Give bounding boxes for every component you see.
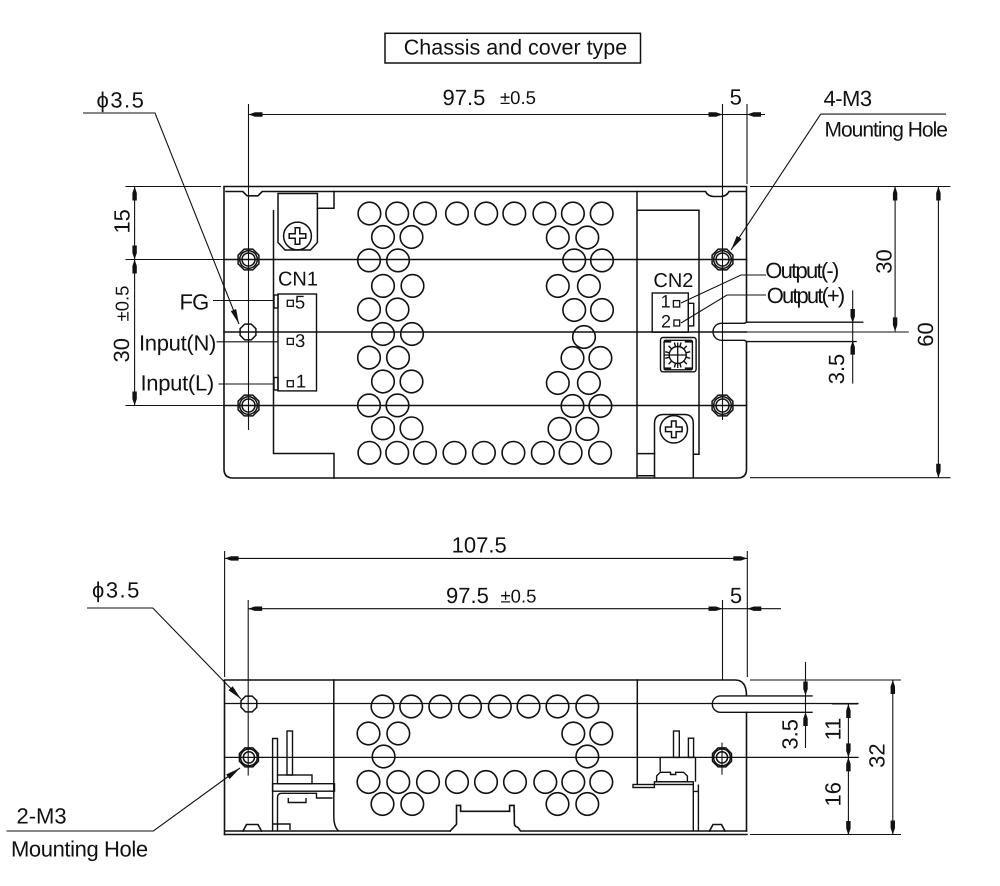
svg-text:ϕ3.5: ϕ3.5	[97, 87, 146, 112]
potentiometer VR1 inner	[664, 340, 692, 370]
svg-text:Mounting Hole: Mounting Hole	[11, 837, 148, 862]
arrow 32 bottom	[891, 821, 895, 835]
dimension line 32	[892, 680, 894, 835]
CN2 side view latch	[657, 772, 688, 782]
arrow 97.5 right / 5 left	[709, 112, 723, 116]
vent holes top view right block	[547, 226, 570, 249]
vent holes top view top row	[358, 202, 381, 225]
svg-text:2-M3: 2-M3	[17, 804, 67, 829]
dimension line 30 right	[894, 187, 896, 332]
svg-text:5: 5	[730, 583, 742, 608]
CN2 side view pin short	[688, 738, 693, 757]
svg-text:16: 16	[820, 782, 845, 806]
extension 15/30 left bottom	[126, 405, 225, 407]
cover edge right top view	[637, 192, 699, 478]
arrow 107.5 left	[225, 556, 239, 560]
svg-text:1: 1	[661, 292, 671, 312]
arrow 11 top	[846, 704, 850, 718]
extension line left hole column	[248, 104, 250, 430]
arrow 30 right bottom	[893, 317, 897, 331]
extension tongue center bottom view	[832, 703, 858, 705]
arrow 3.5 bottom view top	[803, 682, 807, 696]
svg-text:97.5: 97.5	[443, 85, 486, 110]
extension line bottom view right edge	[746, 551, 748, 677]
svg-text:5: 5	[730, 85, 742, 110]
dimension line 3.5 right	[852, 290, 854, 383]
potentiometer corner pads	[664, 340, 692, 370]
extension 15/30 left mid	[126, 259, 225, 261]
chassis seam line lower	[224, 405, 747, 407]
arrow 5 right outside	[747, 112, 761, 116]
arrow 97.5 left	[249, 112, 263, 116]
leader Output(-)	[681, 275, 766, 303]
dimension line 16	[847, 757, 849, 835]
svg-text:3.5: 3.5	[778, 719, 803, 750]
svg-text:CN1: CN1	[278, 269, 318, 291]
CN1 side view block	[278, 775, 313, 784]
svg-text:5: 5	[295, 291, 305, 312]
screw bracket input side	[278, 194, 317, 251]
leader FG	[213, 300, 274, 302]
CN1 side view plate	[273, 784, 335, 792]
svg-text:97.5: 97.5	[446, 583, 489, 608]
vent holes bottom view other rows	[357, 722, 380, 745]
svg-text:32: 32	[865, 743, 890, 767]
chassis seam line upper	[224, 259, 747, 261]
svg-text:11: 11	[820, 718, 845, 741]
CN1 side view body	[278, 793, 333, 831]
extension 30/60 right top	[750, 186, 951, 188]
svg-text:Input(L): Input(L)	[141, 370, 214, 395]
arrow 30 left top	[132, 260, 136, 274]
bottom notch with tabs	[450, 805, 746, 831]
potentiometer VR1 outer	[661, 338, 697, 372]
leader phi3.5 bottom	[87, 608, 241, 699]
bottom tab right	[710, 825, 726, 832]
cover edge line bottom view left	[334, 680, 338, 831]
arrow 16 top	[846, 757, 850, 771]
phi 3.5 hole top view	[240, 324, 256, 340]
mounting hole 2-M3 left	[239, 748, 258, 767]
cover edge line bottom view right	[636, 680, 638, 784]
arrow 97.5 bottom left	[248, 607, 262, 611]
mounting hole 2-M3 right	[713, 748, 732, 767]
connector CN2 body	[652, 293, 688, 332]
extension slot center right	[747, 331, 909, 333]
extension 15/30 left top	[126, 186, 222, 188]
arrow 3.5 top	[851, 309, 855, 323]
CN2 side view bar	[633, 785, 654, 788]
arrow 97.5 bottom right	[709, 607, 723, 611]
dimension line 97.5 top	[249, 114, 766, 116]
svg-text:±0.5: ±0.5	[500, 87, 536, 108]
potentiometer VR1 knurled shaft	[669, 347, 686, 364]
chassis outline bottom view	[225, 680, 747, 835]
CN1 side view pin tall	[287, 731, 293, 775]
CN2 tab right	[688, 303, 693, 326]
extension line right hole column	[722, 104, 724, 420]
arrow 16 bottom	[846, 821, 850, 835]
extension line 32 bottom	[750, 834, 901, 836]
dimension line 107.5	[225, 557, 748, 559]
svg-text:30: 30	[872, 249, 897, 273]
arrow 32 top	[891, 680, 895, 694]
arrowhead 4-M3 leader	[729, 236, 742, 252]
mounting hole bottom-left (4-M3)	[238, 395, 259, 416]
cover edge left top view	[274, 192, 335, 479]
arrow 15 top	[132, 187, 136, 201]
svg-text:2: 2	[661, 312, 671, 332]
CN2 side view leg	[693, 785, 698, 832]
vent holes bottom view top row	[371, 695, 394, 718]
arrowhead 2-M3 leader	[226, 766, 242, 780]
CN1 side view pin short	[273, 739, 290, 832]
chassis bottom outer line	[225, 834, 748, 836]
vent holes top view bottom row	[358, 442, 381, 465]
arrow 15 bottom	[132, 246, 136, 260]
arrow 107.5 right	[733, 556, 747, 560]
CN1 tab pin1	[274, 378, 278, 391]
arrow 30 right top	[893, 187, 897, 201]
dimension line 97.5 bottom	[248, 608, 781, 610]
screw output side	[660, 416, 687, 443]
CN1 tab pin5	[274, 295, 278, 308]
extension line 32 top	[750, 679, 901, 681]
CN2 side view pin tall	[674, 731, 680, 757]
cover lip line top view	[226, 192, 745, 197]
CN2 side view plate	[654, 782, 693, 785]
svg-text:60: 60	[913, 322, 938, 346]
phi3.5 hole bottom view	[241, 696, 257, 712]
svg-text:Output(+): Output(+)	[767, 283, 844, 308]
leader Input(N)	[217, 341, 279, 343]
svg-text:Input(N): Input(N)	[139, 331, 216, 356]
svg-text:±0.5: ±0.5	[501, 586, 537, 607]
extension 30/60 right bottom	[750, 477, 951, 479]
dimension line 3.5 bottom view	[805, 662, 807, 748]
arrow 60 bottom	[936, 464, 940, 478]
arrow 60 top	[936, 187, 940, 201]
arrow 30 left bottom	[132, 392, 136, 406]
seam line bottom view top	[225, 703, 859, 705]
arrowhead phi3.5 bottom leader	[228, 686, 243, 701]
svg-text:Chassis and cover type: Chassis and cover type	[404, 36, 627, 60]
svg-text:30: 30	[109, 338, 134, 362]
crosshair right 2-M3	[721, 743, 723, 775]
bottom tab left	[243, 825, 262, 832]
dimension line 15 and 30 left	[134, 187, 136, 406]
output slot tongue top view	[713, 322, 863, 341]
svg-text:1: 1	[296, 370, 306, 391]
svg-text:3.5: 3.5	[824, 354, 849, 385]
arrow 3.5 bottom	[851, 341, 855, 355]
svg-text:CN2: CN2	[653, 270, 693, 292]
arrow 11 bottom	[846, 743, 850, 757]
leader Output(+)	[681, 295, 766, 323]
svg-text:Mounting Hole: Mounting Hole	[825, 119, 948, 142]
svg-text:3: 3	[295, 330, 305, 351]
extension line chassis right corner	[746, 104, 748, 184]
leader Input(L)	[219, 383, 275, 385]
CN2 pin 1 square	[673, 301, 679, 307]
CN1 pin 1 square	[287, 381, 293, 387]
CN1 pin 5 square	[287, 300, 293, 306]
mounting hole top-right (4-M3)	[712, 249, 733, 270]
seam line bottom view mid	[225, 756, 859, 758]
dimension line 60 right	[937, 187, 939, 478]
svg-text:FG: FG	[180, 289, 209, 314]
extension line bottom view hole column left	[247, 600, 249, 776]
mounting hole top-left (4-M3)	[238, 249, 259, 270]
CN2 side view body	[660, 757, 695, 781]
leader phi3.5 top	[83, 113, 239, 324]
extension line bottom view hole column right	[722, 600, 724, 680]
svg-text:±0.5: ±0.5	[112, 286, 133, 322]
leader 2-M3	[7, 768, 241, 831]
dimension line 11	[847, 704, 849, 757]
vent holes top view left block	[372, 226, 395, 249]
chassis seam line middle	[224, 331, 747, 333]
arrow 5 bottom right outside	[747, 607, 761, 611]
chassis outline top view	[224, 187, 747, 479]
screw bracket output side	[655, 415, 694, 478]
svg-text:15: 15	[110, 209, 135, 233]
CN1 pin 3 square	[287, 338, 293, 344]
extension line bottom view left edge	[224, 551, 226, 677]
svg-text:107.5: 107.5	[452, 533, 507, 558]
CN2 pin 2 square	[674, 320, 680, 326]
arrow 3.5 bottom view bottom	[803, 712, 807, 726]
mounting hole bottom-right (4-M3)	[712, 395, 733, 416]
screw input side	[284, 222, 312, 250]
svg-text:Output(-): Output(-)	[765, 258, 838, 283]
svg-text:ϕ3.5: ϕ3.5	[92, 578, 141, 603]
svg-text:4-M3: 4-M3	[824, 86, 872, 111]
arrowhead phi3.5 top leader	[231, 309, 242, 325]
output tongue bottom view	[712, 696, 812, 712]
connector CN1 body	[278, 294, 317, 391]
leader 4-M3	[731, 114, 946, 250]
title box	[385, 33, 641, 63]
